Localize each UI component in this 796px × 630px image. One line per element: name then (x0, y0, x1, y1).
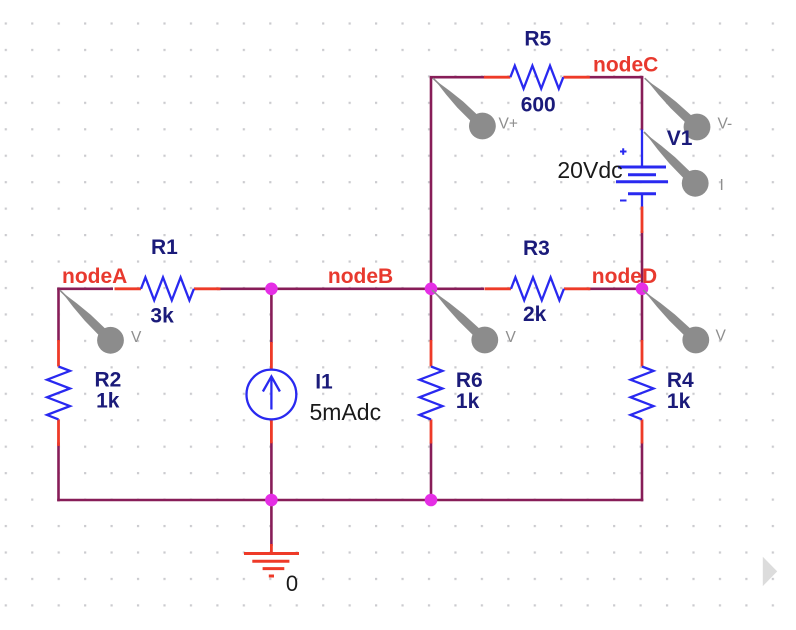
svg-text:V-: V- (718, 116, 733, 133)
svg-text:3k: 3k (150, 305, 174, 328)
wire below R6 to bottom (430, 443, 433, 501)
wire below R2 to bottom-left corner (57, 443, 60, 502)
wire R3 right pin to node D (588, 287, 642, 290)
wire junction above I1 (270, 289, 273, 343)
voltage probe marker at node B (432, 290, 498, 353)
junction node between R1 and I1 (265, 283, 278, 296)
svg-text:1k: 1k (96, 390, 120, 413)
wire node B to R3 left pin (431, 287, 484, 290)
svg-text:I1: I1 (315, 371, 333, 394)
svg-text:R5: R5 (524, 28, 551, 51)
voltage probe marker V- at node C (645, 78, 711, 140)
wire top horizontal left of R5 (430, 76, 485, 79)
svg-text:V+: V+ (499, 116, 518, 133)
svg-text:V: V (716, 328, 727, 345)
wire ground stem from bottom rail (270, 500, 273, 546)
svg-text:600: 600 (521, 94, 556, 117)
svg-text:nodeC: nodeC (593, 54, 658, 77)
svg-text:2k: 2k (523, 303, 547, 326)
wire R1 right to junction B1 (217, 287, 271, 290)
current probe marker I at V1 (644, 132, 709, 197)
svg-text:5mAdc: 5mAdc (310, 399, 382, 425)
wire junction B1 to node B (271, 287, 431, 290)
svg-text:R1: R1 (151, 236, 178, 259)
svg-text:I: I (720, 177, 724, 194)
wire node C corner down to V1 top pin (641, 76, 644, 130)
junction bottom rail at ground (265, 494, 278, 507)
wire node A horizontal to R1 (57, 287, 113, 290)
scrollbar arrow bottom right (763, 557, 777, 586)
resistor R6 (420, 340, 443, 444)
voltage probe marker V+ at top left corner (433, 78, 496, 139)
svg-text:R2: R2 (95, 369, 122, 392)
voltage probe marker at node D (643, 290, 709, 353)
wire below I1 to bottom (270, 442, 273, 500)
wire top-left vertical (node C net left side) (430, 77, 433, 289)
svg-text:1k: 1k (456, 390, 480, 413)
svg-text:V: V (131, 329, 142, 346)
svg-text:nodeB: nodeB (328, 265, 393, 288)
wire V1 bottom pin down to node D (641, 231, 644, 289)
junction node B (425, 283, 438, 296)
svg-text:20Vdc: 20Vdc (557, 157, 622, 183)
wire node B down to R6 top pin (430, 289, 433, 341)
wire below R4 to bottom-right corner (641, 443, 644, 502)
ground symbol 0 (244, 544, 299, 576)
voltage probe marker at node A (60, 290, 124, 353)
svg-text:V: V (506, 329, 517, 346)
resistor R2 (47, 340, 70, 446)
current source I1 (247, 342, 297, 443)
wire node A corner down left side (57, 288, 60, 342)
svg-text:1k: 1k (667, 390, 691, 413)
svg-text:nodeA: nodeA (62, 265, 127, 288)
wire node D down to R4 top pin (641, 289, 644, 341)
svg-text:R3: R3 (523, 237, 550, 260)
junction bottom rail below R6 (425, 494, 438, 507)
wire bottom horizontal rail (57, 499, 643, 502)
svg-text:nodeD: nodeD (592, 265, 657, 288)
resistor R1 (115, 277, 221, 300)
svg-text:R6: R6 (456, 369, 483, 392)
svg-text:V1: V1 (667, 127, 693, 150)
resistor R3 (485, 277, 591, 300)
resistor R4 (631, 340, 654, 444)
dc voltage source V1 (616, 130, 668, 234)
svg-text:0: 0 (286, 571, 298, 596)
wire top horizontal right of R5 to node C corner (589, 76, 644, 79)
svg-text:R4: R4 (667, 369, 694, 392)
resistor R5 (484, 66, 590, 89)
junction node D (636, 283, 649, 296)
